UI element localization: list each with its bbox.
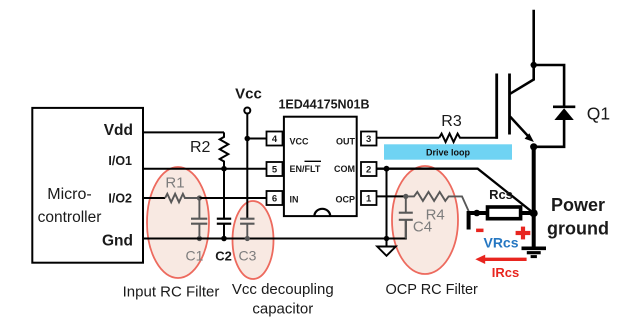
- highlight ellipse: Input RC Filter: [147, 167, 209, 278]
- wire Rcs to power line: [521, 211, 534, 215]
- wire Vcc vertical: [246, 114, 248, 219]
- svg-text:1: 1: [366, 194, 372, 205]
- resistor R3: [439, 134, 498, 142]
- wire COM drop to signal ground: [386, 169, 388, 247]
- wire I/O1 to pin5: [143, 168, 267, 170]
- IGBT Q1 gate bar: [495, 74, 498, 139]
- IC notch: [314, 209, 330, 216]
- svg-text:Power: Power: [551, 195, 605, 215]
- svg-text:I/O1: I/O1: [108, 154, 132, 168]
- VRcs minus sign: [476, 229, 483, 233]
- svg-text:Gnd: Gnd: [102, 232, 133, 249]
- svg-text:controller: controller: [38, 209, 102, 226]
- highlight ellipse: Vcc decoupling C3: [233, 201, 274, 279]
- Vcc terminal circle: [244, 108, 250, 114]
- svg-text:4: 4: [272, 134, 278, 145]
- pin 2 box: [361, 162, 377, 176]
- svg-text:2: 2: [366, 165, 371, 176]
- svg-text:Vcc decoupling: Vcc decoupling: [232, 281, 334, 298]
- svg-text:OUT: OUT: [336, 136, 356, 146]
- wire collector vertical: [532, 10, 535, 81]
- node C1 junction: [197, 195, 202, 200]
- wire I/O2 from micro to R1: [143, 197, 165, 199]
- svg-text:VCC: VCC: [290, 136, 310, 146]
- wire Vdd line: [143, 131, 224, 133]
- IGBT Q1 body bar: [508, 74, 511, 135]
- svg-text:5: 5: [272, 165, 278, 176]
- svg-text:Rcs: Rcs: [489, 187, 513, 202]
- svg-text:VRcs: VRcs: [483, 235, 518, 251]
- resistor R1: [165, 194, 199, 202]
- diode D1 triangle: [554, 108, 573, 120]
- svg-text:Micro-: Micro-: [47, 186, 91, 203]
- svg-text:OCP: OCP: [335, 194, 355, 204]
- capacitor C1: [198, 198, 200, 218]
- svg-text:capacitor: capacitor: [252, 301, 313, 318]
- svg-text:C1: C1: [186, 248, 204, 264]
- resistor R2: [220, 132, 229, 168]
- wire emitter to power ground (thick): [532, 147, 536, 247]
- capacitor C4: [405, 196, 407, 212]
- wire pin1 OCP: [377, 195, 406, 197]
- svg-text:R2: R2: [190, 139, 211, 156]
- highlight ellipse: OCP RC Filter: [392, 166, 458, 274]
- svg-text:COM: COM: [334, 164, 355, 174]
- capacitor C2: [223, 169, 225, 218]
- svg-text:3: 3: [366, 134, 371, 145]
- svg-text:Q1: Q1: [587, 104, 610, 124]
- node emitter junction: [530, 143, 537, 150]
- resistor R4: [406, 192, 469, 212]
- capacitor C3: [240, 218, 254, 220]
- svg-text:Vcc: Vcc: [235, 86, 262, 103]
- node collector junction: [531, 62, 537, 68]
- svg-text:Vdd: Vdd: [104, 122, 133, 139]
- svg-text:C3: C3: [239, 248, 257, 264]
- drive loop highlight box: [384, 144, 512, 159]
- wire pin3 OUT to R3: [377, 137, 440, 139]
- wire I/O2 to pin6: [199, 197, 267, 199]
- svg-text:Drive loop: Drive loop: [426, 147, 471, 157]
- svg-text:C2: C2: [215, 249, 232, 264]
- svg-text:OCP RC Filter: OCP RC Filter: [386, 282, 479, 298]
- wire Vcc to pin 4: [247, 138, 267, 140]
- power ground symbol: [522, 247, 547, 251]
- IRcs arrow: [484, 258, 527, 261]
- IGBT emitter lead: [510, 117, 530, 139]
- node Rcs left: [474, 210, 481, 217]
- node R2/C2 junction: [221, 166, 227, 172]
- svg-text:Input RC Filter: Input RC Filter: [123, 284, 220, 301]
- pin 1 box: [361, 191, 377, 205]
- svg-text:I/O2: I/O2: [108, 192, 132, 206]
- svg-text:6: 6: [272, 194, 277, 205]
- sense resistor Rcs body: [488, 207, 521, 219]
- IGBT emitter arrowhead: [525, 133, 534, 142]
- sense resistor Rcs leads (thick): [469, 213, 488, 230]
- svg-text:ground: ground: [547, 219, 609, 239]
- svg-text:IN: IN: [290, 194, 299, 204]
- pin 6 box: [267, 191, 283, 205]
- svg-text:R3: R3: [441, 113, 462, 130]
- diode D1 cathode bar: [553, 106, 575, 109]
- node Rcs right: [530, 209, 538, 217]
- svg-text:1ED44175N01B: 1ED44175N01B: [278, 98, 369, 112]
- microcontroller box: [32, 108, 143, 263]
- wire diode branch bottom: [534, 119, 564, 147]
- IGBT collector lead: [510, 80, 534, 94]
- wire diode branch top: [534, 65, 564, 106]
- svg-text:EN/FLT: EN/FLT: [290, 164, 321, 174]
- wire COM return: [377, 169, 534, 214]
- node Vcc/pin4 junction: [245, 136, 251, 142]
- pin 5 box: [267, 162, 283, 176]
- pin 4 box: [267, 132, 283, 146]
- svg-text:R1: R1: [165, 175, 184, 192]
- svg-text:IRcs: IRcs: [492, 265, 519, 280]
- wire Gnd rail: [143, 220, 406, 239]
- node COM junction: [384, 166, 390, 172]
- signal ground symbol: [377, 247, 396, 256]
- VRcs plus sign: [516, 231, 531, 235]
- node gnd rail junction: [384, 236, 389, 241]
- svg-text:C4: C4: [413, 219, 432, 236]
- pin 3 box: [361, 132, 377, 146]
- node OCP junction: [403, 194, 408, 199]
